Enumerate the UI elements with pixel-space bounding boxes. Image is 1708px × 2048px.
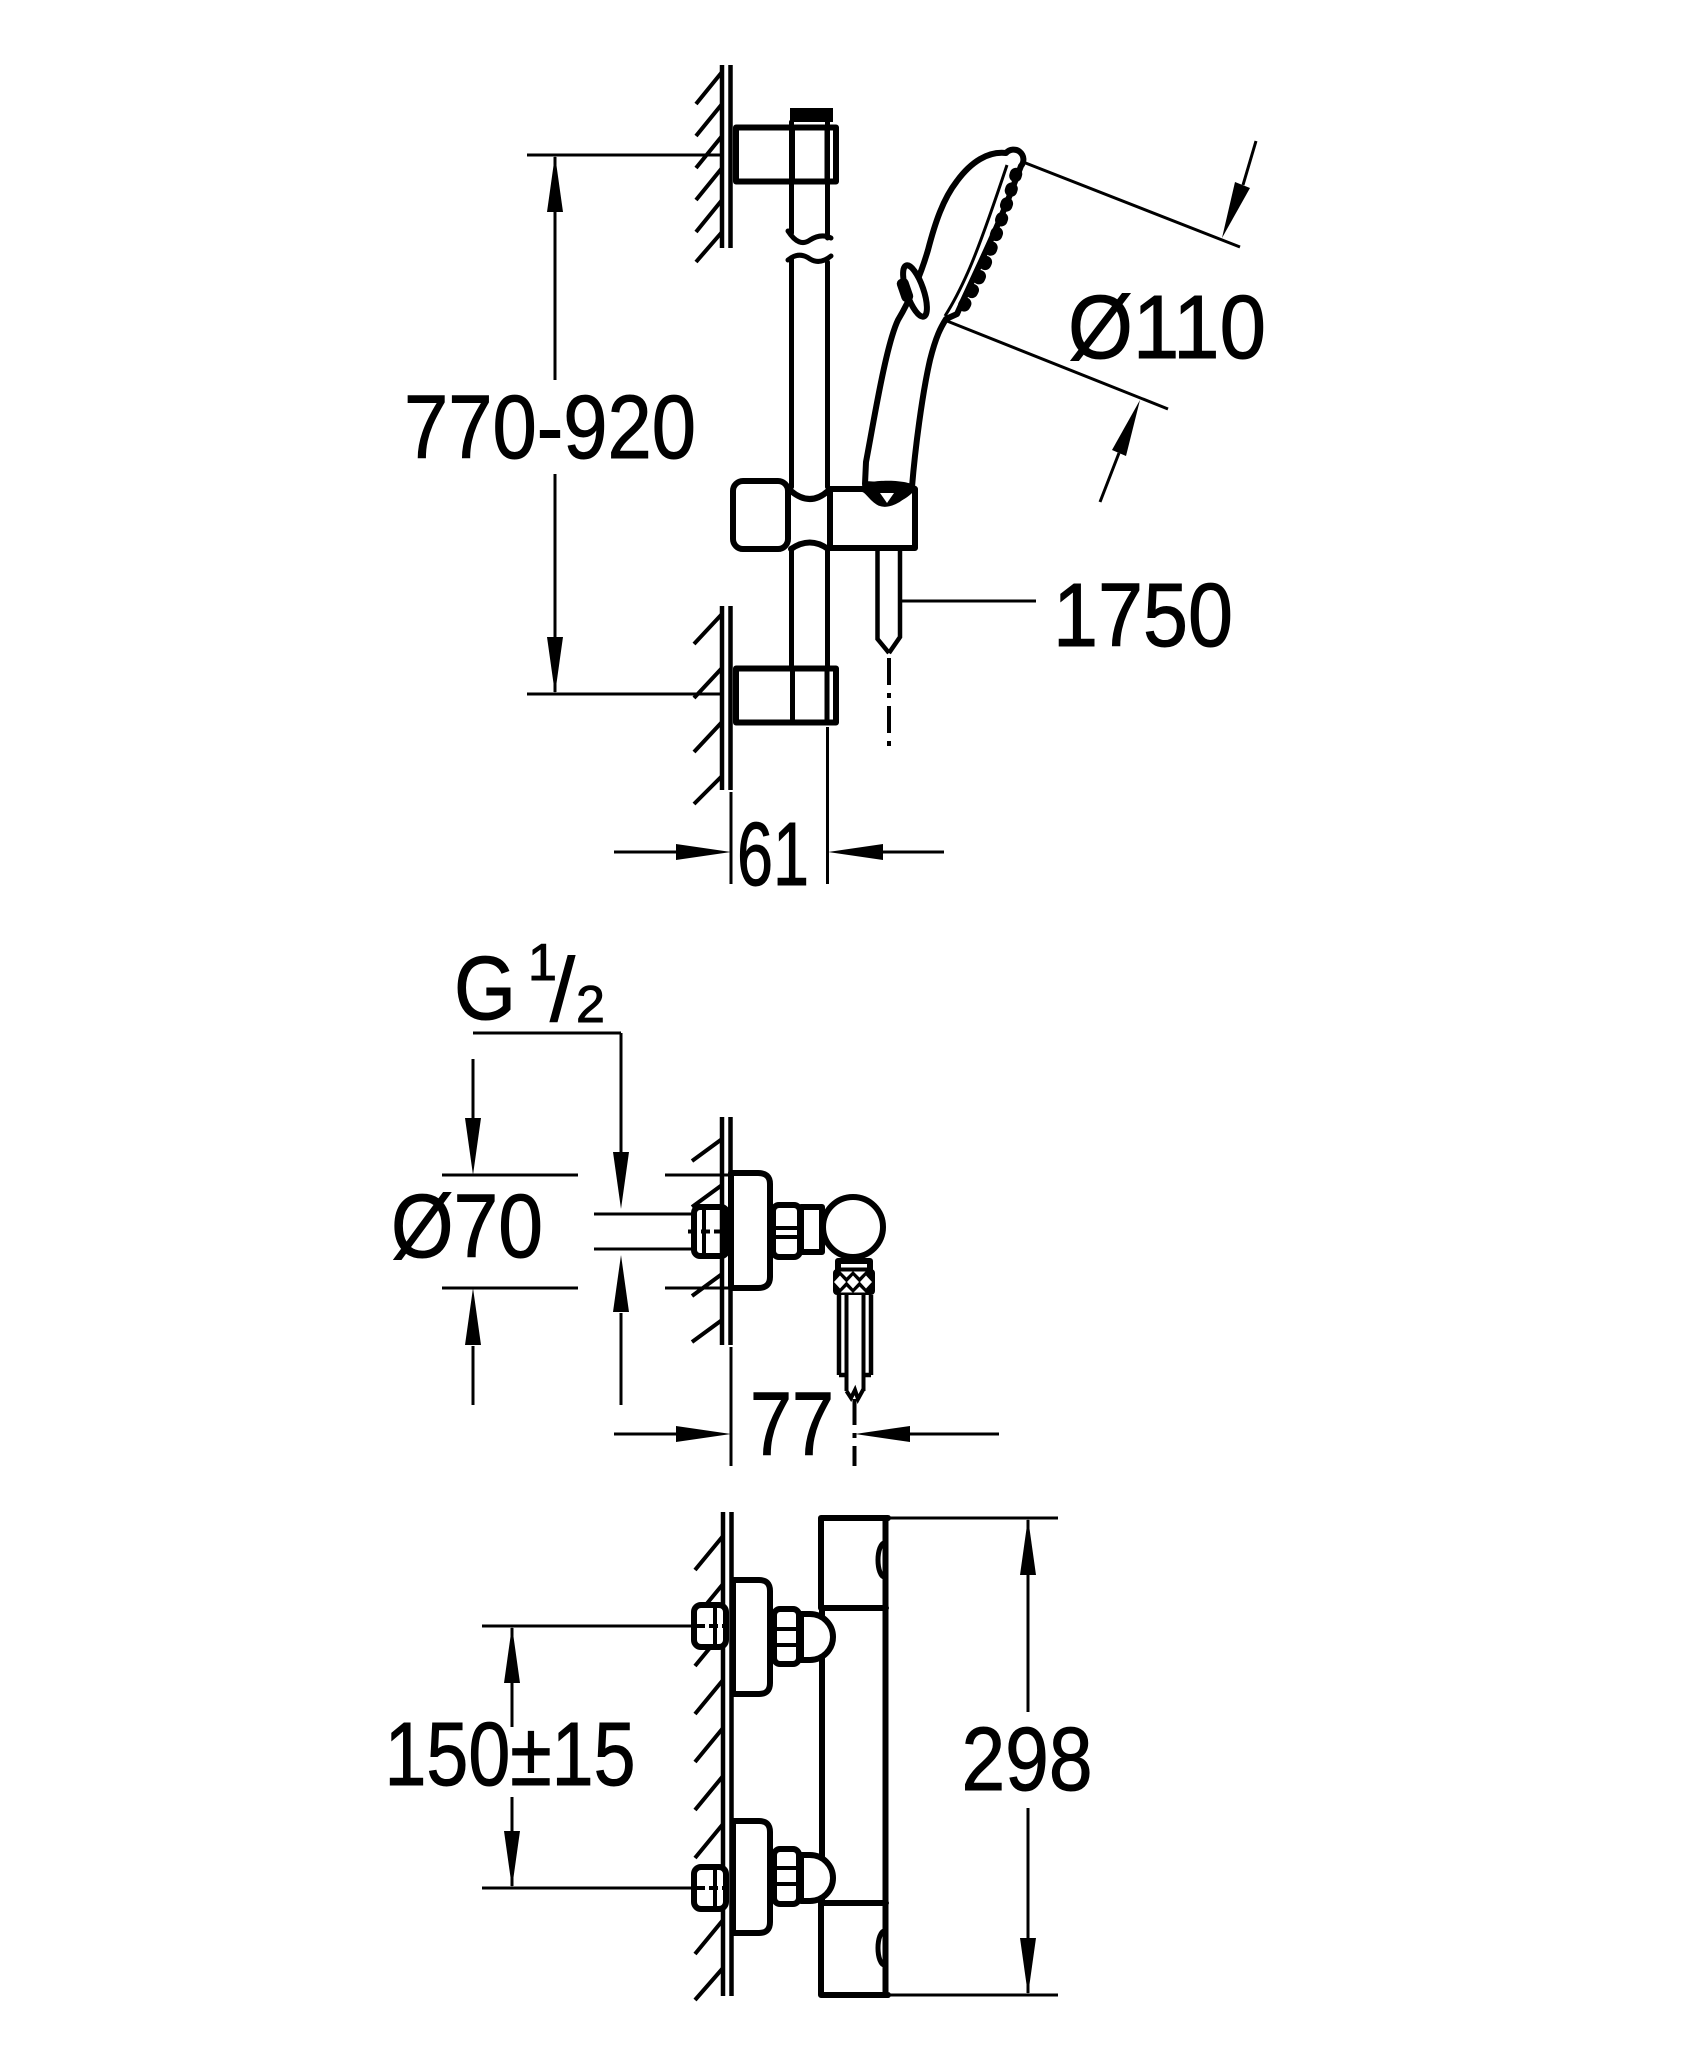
dim 77 left extension: [730, 1347, 733, 1466]
O70 extension lines: [442, 1175, 731, 1288]
supply nut lower (behind wall): [694, 1867, 726, 1909]
O110 upper arrow: [1243, 141, 1256, 185]
valve inlet block: [801, 1207, 822, 1252]
knurled hose nut: [833, 1269, 875, 1295]
hose (middle piece): [839, 1295, 871, 1375]
S-union hex upper: [774, 1609, 799, 1664]
dim 770-920 line + arrows: [554, 157, 557, 692]
O70 down arrow: [472, 1059, 475, 1118]
dim O110 witness lines: [947, 162, 1240, 409]
hose centerline (dash-dot): [853, 1399, 857, 1466]
hand shower outline: [865, 150, 1023, 487]
svg-text:2: 2: [576, 976, 605, 1034]
holder saddle over rail: [791, 491, 828, 499]
escutcheon lower: [733, 1821, 770, 1933]
supply pipe nut: [694, 1207, 727, 1256]
svg-text:G: G: [454, 939, 516, 1039]
valve body top cap: [821, 1518, 888, 1608]
wall (middle): [722, 1117, 731, 1345]
svg-text:298: 298: [962, 1710, 1093, 1810]
wall bracket (bottom): [736, 669, 836, 723]
wall (lower segment): [722, 606, 731, 790]
wall (upper segment): [722, 65, 731, 248]
glide holder knob: [733, 481, 788, 549]
escutcheon upper: [733, 1580, 770, 1694]
holder body (cup side): [830, 489, 915, 548]
hose collar: [838, 1261, 870, 1271]
S-union hex lower: [774, 1849, 799, 1904]
supply nut upper (behind wall): [694, 1605, 726, 1647]
leader line 1750: [902, 600, 1036, 603]
O70 up arrow: [472, 1346, 475, 1405]
G1/2 up arrow: [620, 1313, 623, 1405]
svg-text:150±15: 150±15: [385, 1705, 636, 1805]
valve hex nut: [773, 1205, 800, 1257]
svg-text:Ø110: Ø110: [1068, 278, 1266, 378]
wall hatching (bottom): [695, 1536, 723, 2000]
svg-text:/: /: [550, 941, 575, 1041]
grip notch upper: [878, 1543, 884, 1577]
svg-text:77: 77: [750, 1375, 834, 1475]
wall bracket (top): [736, 128, 836, 182]
svg-text:770-920: 770-920: [404, 378, 696, 478]
BOTTOM VIEW: thermostat side: [385, 1512, 1093, 2000]
supply pipe stub: [594, 1214, 695, 1249]
dim 298 line + arrows: [1027, 1520, 1030, 1993]
ball joint: [823, 1197, 883, 1257]
shower rail tube: [792, 122, 828, 666]
wall (bottom section): [723, 1512, 732, 1996]
cup notch (white): [880, 493, 894, 503]
O110 lower arrow: [1100, 453, 1119, 502]
svg-text:61: 61: [737, 805, 809, 905]
hose centerline (dash-dot): [887, 658, 891, 746]
dim 61 arrows: [614, 851, 944, 854]
rail break (squiggle): [788, 231, 831, 243]
dim 150 line + arrows: [511, 1628, 514, 1886]
valve body mid (left edge): [819, 1608, 825, 1903]
pipe centerline: [688, 1230, 726, 1234]
spray mode button: [898, 263, 932, 320]
MIDDLE VIEW: shower valve side: [391, 934, 999, 1475]
rail top cap: [790, 108, 833, 122]
grip notch lower: [878, 1931, 884, 1965]
dim 77 arrows: [614, 1433, 999, 1436]
S-union dome lower: [801, 1855, 833, 1901]
valve body right edge: [883, 1518, 889, 1995]
handle cup gap (black): [862, 481, 917, 504]
TOP VIEW: shower rail set: [404, 65, 1266, 905]
wall hatching (upper): [696, 72, 722, 262]
valve body bottom cap: [821, 1903, 888, 1995]
dim 298 extension lines: [888, 1518, 1058, 1995]
G1/2 down arrow: [613, 1152, 629, 1209]
wall hatching (middle): [692, 1139, 722, 1342]
G1/2 leader bracket: [473, 1033, 621, 1152]
dim 150 extension lines: [482, 1626, 694, 1888]
dim 61 extension lines: [731, 727, 828, 884]
svg-text:1750: 1750: [1053, 566, 1233, 666]
S-union dome upper: [801, 1614, 833, 1660]
spray nozzles (dotted band): [961, 174, 1016, 311]
escutcheon O70 (side): [731, 1173, 770, 1288]
dim 770-920 extension lines: [527, 155, 722, 694]
svg-text:Ø70: Ø70: [391, 1177, 543, 1277]
wall hatching (lower): [694, 614, 722, 804]
spray face rim line: [945, 165, 1007, 316]
hose break: [847, 1389, 864, 1399]
shower hose (top piece): [878, 549, 901, 653]
